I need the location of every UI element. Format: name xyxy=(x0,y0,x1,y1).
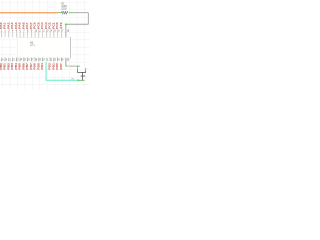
pin bottom 20 net PB1 xyxy=(4,58,8,70)
pin bottom 23 net PB4 xyxy=(15,58,19,70)
svg-text:RST: RST xyxy=(60,62,63,69)
svg-text:PC6: PC6 xyxy=(34,22,37,29)
svg-text:PB0: PB0 xyxy=(0,62,3,69)
wire gray run right xyxy=(74,12,89,14)
transistor Q1 top bar xyxy=(78,71,87,73)
svg-text:PB2: PB2 xyxy=(8,62,11,69)
pin top 13 net PC3 xyxy=(45,22,49,38)
svg-text:PA0: PA0 xyxy=(0,22,3,29)
svg-text:PD1: PD1 xyxy=(53,62,56,69)
svg-text:U1: U1 xyxy=(30,41,34,45)
pin top 4 net PA3 xyxy=(11,22,14,38)
svg-text:PD0: PD0 xyxy=(56,62,59,69)
wire green attach at pin36 corner xyxy=(66,65,68,66)
wire green attach at R1 right xyxy=(69,12,74,14)
pin bottom 22 net PB3 xyxy=(11,58,15,70)
svg-text:XT2: XT2 xyxy=(60,22,63,29)
svg-text:PC0: PC0 xyxy=(56,22,59,29)
pin top 16 net PC0 xyxy=(56,22,60,38)
pin top 1 net PA0 xyxy=(0,22,3,38)
resistor R1 xyxy=(62,11,68,14)
pin bottom 34 net PD0 xyxy=(56,58,60,70)
svg-text:PC7: PC7 xyxy=(30,22,33,29)
pin bottom 30 net PD4 xyxy=(41,58,45,70)
wire Q1 lead to GND wire xyxy=(82,76,84,80)
pin bottom 31 (teal net) xyxy=(46,60,49,62)
svg-text:PA3: PA3 xyxy=(11,22,14,29)
pin bottom 21 net PB2 xyxy=(8,58,12,70)
svg-text:PA5: PA5 xyxy=(19,22,22,29)
svg-text:89C5: 89C5 xyxy=(30,45,36,47)
pin bottom 19 net PB0 xyxy=(0,58,4,70)
pin top 12 net PC4 xyxy=(41,22,45,38)
svg-text:PC5: PC5 xyxy=(38,22,41,29)
pin top 6 net PA5 xyxy=(19,22,22,38)
wire X1 left lead xyxy=(76,66,78,70)
pin bottom 29 net PD5 xyxy=(38,58,42,70)
pin bottom 25 net PB6 xyxy=(23,58,27,70)
pin top 18 xyxy=(67,30,70,32)
svg-text:PD2: PD2 xyxy=(49,62,52,69)
wire green attach at U1 pin18 xyxy=(65,23,69,25)
pin top 2 net PA1 xyxy=(4,22,7,38)
pin bottom 32 net PD2 xyxy=(49,58,53,70)
svg-text:PA2: PA2 xyxy=(8,22,11,29)
svg-text:PA1: PA1 xyxy=(4,22,7,29)
pin top 5 net PA4 xyxy=(15,22,18,38)
wire green continuation at bottom xyxy=(78,79,84,81)
pin top 3 net PA2 xyxy=(8,22,11,38)
svg-text:PB6: PB6 xyxy=(23,62,26,69)
svg-text:PD4: PD4 xyxy=(41,62,44,69)
svg-text:PB3: PB3 xyxy=(11,62,14,69)
svg-text:PB1: PB1 xyxy=(4,62,7,69)
wire gray run back to U1 xyxy=(69,23,89,25)
wire X1 right lead xyxy=(85,68,87,71)
pin top 8 net PA7 xyxy=(26,22,29,38)
pin bottom 35 net RST xyxy=(60,58,64,70)
pin bottom 27 net PD7 xyxy=(30,58,34,70)
svg-text:PD6: PD6 xyxy=(34,62,37,69)
pin top 15 net PC1 xyxy=(53,22,57,38)
pin bottom 24 net PB5 xyxy=(19,58,23,70)
pin top 10 net PC6 xyxy=(34,22,38,38)
svg-text:PC4: PC4 xyxy=(41,22,44,29)
transistor Q1 bottom bar xyxy=(81,75,86,77)
wire pin36 stub down xyxy=(65,58,67,66)
transistor Q1 stem xyxy=(82,72,84,76)
pin top 17 net XT2 xyxy=(60,22,64,38)
pin bottom 28 net PD6 xyxy=(34,58,38,70)
pin top 7 net PA6 xyxy=(23,22,26,38)
wire VCC supply (orange) xyxy=(0,12,58,14)
svg-text:PB5: PB5 xyxy=(19,62,22,69)
svg-text:PC1: PC1 xyxy=(53,22,56,29)
pin top 14 net PC2 xyxy=(49,22,53,38)
svg-text:PC3: PC3 xyxy=(45,22,48,29)
pin top 9 net PC7 xyxy=(30,22,33,38)
svg-text:PB4: PB4 xyxy=(15,62,18,69)
wire gray vertical right edge xyxy=(87,13,89,25)
svg-text:PA4: PA4 xyxy=(15,22,18,29)
junction bottom xyxy=(78,80,80,82)
pin bottom 36 xyxy=(67,60,70,62)
svg-text:PB7: PB7 xyxy=(26,62,29,69)
junction pin18 xyxy=(65,24,67,26)
wire GND net (teal) from pin31 xyxy=(46,62,78,80)
svg-text:PA6: PA6 xyxy=(23,22,26,29)
svg-text:PC2: PC2 xyxy=(49,22,52,29)
pin bottom 26 net PB7 xyxy=(26,58,30,70)
IC U1 body xyxy=(17,37,70,58)
wire green attach at X1 xyxy=(75,65,80,67)
wire gray run to X1 xyxy=(69,65,76,67)
wire green attach at R1 left xyxy=(58,12,61,14)
svg-text:PA7: PA7 xyxy=(26,22,29,29)
svg-text:PD5: PD5 xyxy=(38,62,41,69)
svg-text:PD7: PD7 xyxy=(30,62,33,69)
pin bottom 33 net PD1 xyxy=(53,58,57,70)
wire stub pin18 down xyxy=(65,24,67,37)
svg-text:2200: 2200 xyxy=(61,8,67,10)
pin top 11 net PC5 xyxy=(38,22,42,38)
